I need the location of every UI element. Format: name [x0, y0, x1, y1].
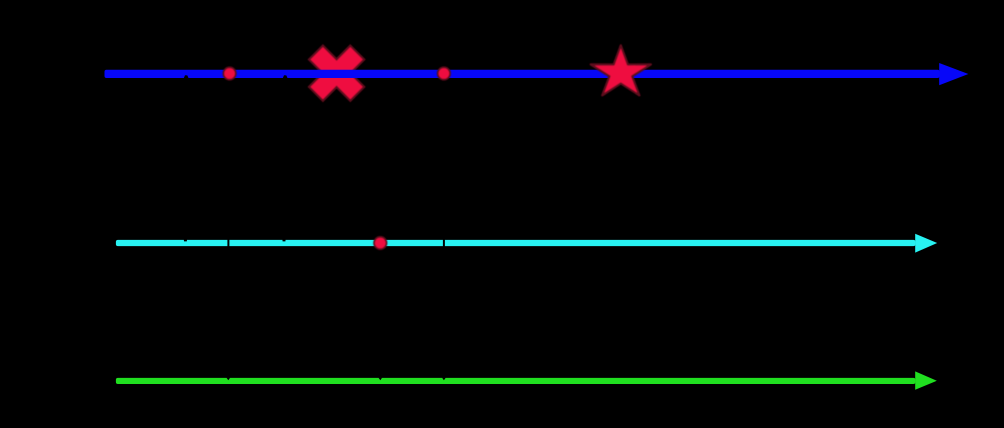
star marker (over blue line) — [591, 45, 651, 95]
tick nick on cyan at 283.9 (top) — [282, 240, 285, 242]
arrowhead cyan — [915, 234, 937, 253]
point dot on blue at 229.6 — [223, 67, 235, 79]
point dot on blue at 443.9 — [438, 67, 450, 79]
tick nick on green at 443.9 (top) — [442, 378, 446, 381]
X marker (under blue line) — [309, 46, 364, 101]
number line 3 (green) — [116, 378, 916, 384]
tick nick on green at 380.3 (top) — [378, 378, 382, 381]
tick nick on blue at 185.5 — [184, 75, 189, 78]
tick gap on cyan at 443.9 — [443, 239, 445, 246]
tick nick on green at 228.3 (top) — [226, 378, 230, 381]
tick gap on cyan at 228.4 — [227, 239, 229, 246]
number line 1 (blue) — [105, 70, 940, 78]
number line 2 (cyan) — [116, 240, 916, 246]
tick nick on cyan at 185.3 (top) — [184, 240, 187, 242]
point dot on cyan at 380.3 — [374, 237, 386, 249]
arrowhead blue — [939, 63, 968, 85]
tick nick on blue at 284.5 — [283, 75, 288, 78]
arrowhead green — [915, 371, 937, 389]
